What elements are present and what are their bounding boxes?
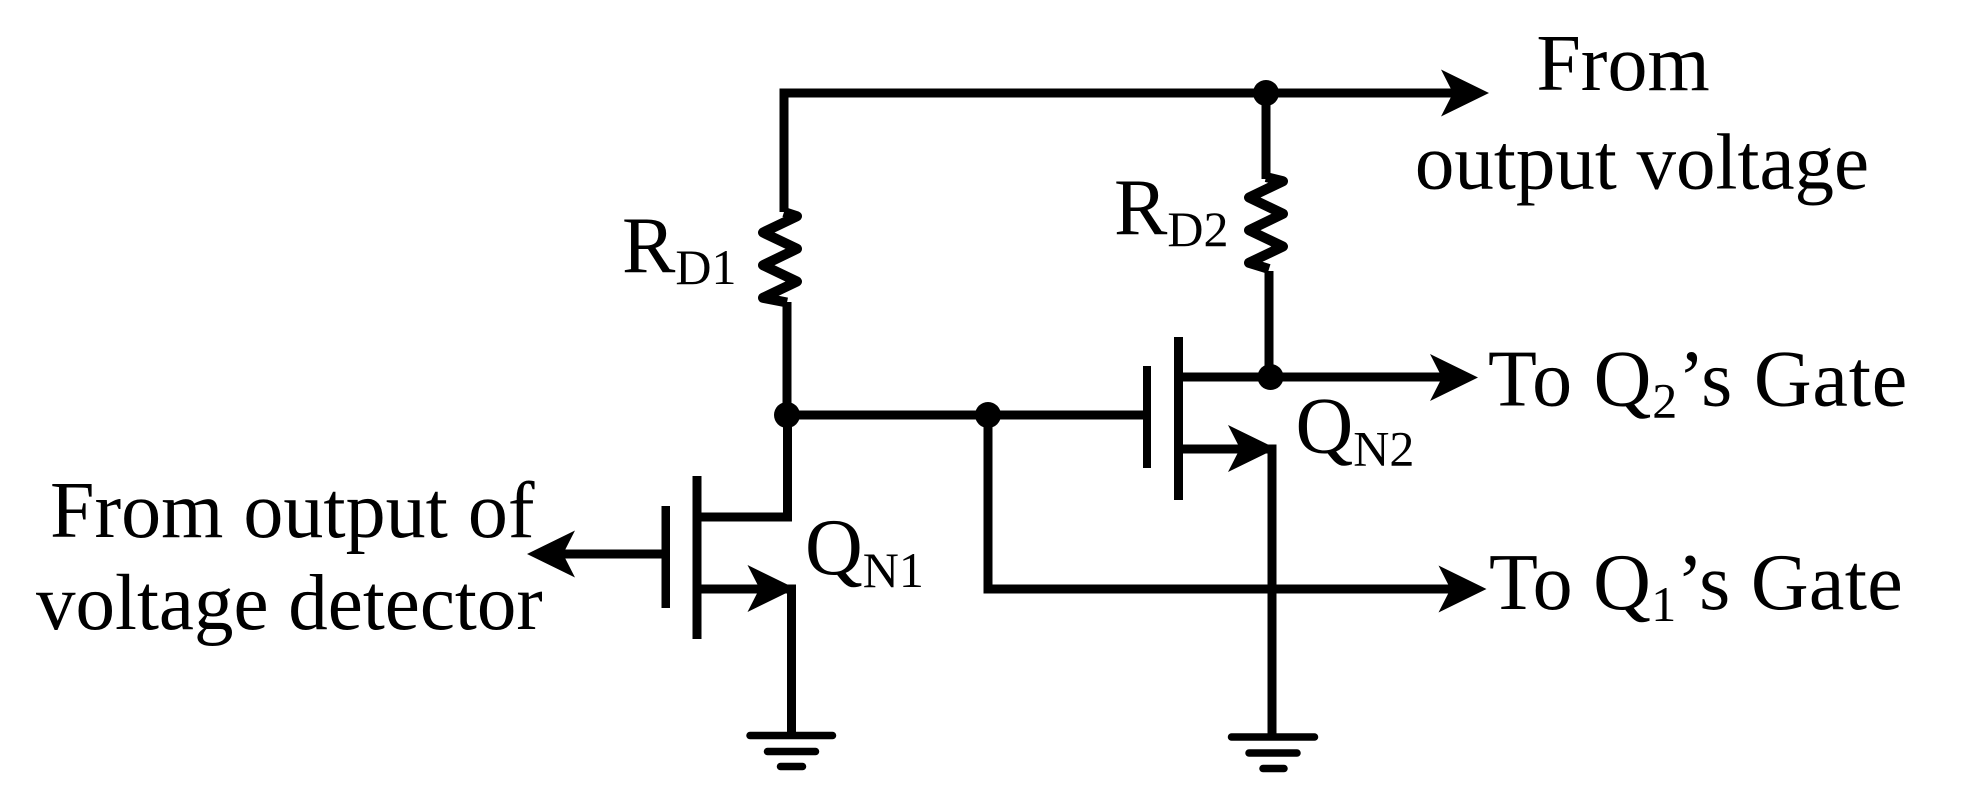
arrowhead QN1 source <box>748 565 796 612</box>
svg-text:voltage detector: voltage detector <box>36 560 543 647</box>
node dot QN2 drain / RD2 bottom <box>1258 364 1284 390</box>
svg-text:output voltage: output voltage <box>1415 120 1869 207</box>
ground under QN1 <box>750 736 833 767</box>
wire RD2 top from rail <box>1262 93 1271 179</box>
wire RD2 bottom to QN2 drain node <box>1265 271 1274 382</box>
svg-text:RD1: RD1 <box>622 202 736 295</box>
svg-text:To Q1’s Gate: To Q1’s Gate <box>1489 539 1903 632</box>
wire node A to QN2 gate <box>782 411 1144 420</box>
svg-text:QN2: QN2 <box>1296 383 1415 477</box>
wire QN1 drain lead to node A <box>695 420 788 517</box>
arrow from output voltage (top right) <box>1441 70 1489 117</box>
wire QN2 source lead down to ground (crosses Q1 gate line) <box>1176 449 1272 736</box>
arrowhead QN2 source <box>1228 425 1276 472</box>
transistor QN2 gate bar <box>1143 366 1151 468</box>
resistor RD1 <box>763 212 797 303</box>
node dot top rail at RD2 <box>1253 80 1279 106</box>
arrow to Q1 gate <box>1439 566 1487 613</box>
transistor QN1 gate bar <box>662 506 671 608</box>
svg-text:RD2: RD2 <box>1114 164 1228 257</box>
node B dot (branch to Q1 gate line) <box>975 402 1001 428</box>
node A dot (RD1 / QN1 drain / QN2 gate) <box>774 402 800 428</box>
wire RD1 bottom to node A <box>783 302 792 420</box>
wire QN1 gate lead <box>562 550 662 559</box>
svg-text:From: From <box>1536 20 1709 108</box>
wire QN2 drain lead to Q2 gate arrow <box>1178 373 1455 382</box>
ground under QN2 <box>1232 737 1315 769</box>
wire top rail from RD1 top to output arrow <box>784 93 1458 212</box>
arrow to voltage detector (left) <box>527 531 575 578</box>
wire node B down and right to Q1 gate arrow <box>988 415 1458 589</box>
arrow to Q2 gate <box>1430 354 1478 401</box>
wire QN1 source lead down to ground <box>695 589 792 736</box>
svg-text:QN1: QN1 <box>805 504 924 598</box>
svg-text:From output of: From output of <box>50 467 535 555</box>
transistor QN1 channel bar <box>693 476 702 639</box>
resistor RD2 <box>1249 177 1283 269</box>
transistor QN2 channel bar <box>1174 337 1183 500</box>
svg-text:To Q2’s Gate: To Q2’s Gate <box>1488 336 1908 429</box>
